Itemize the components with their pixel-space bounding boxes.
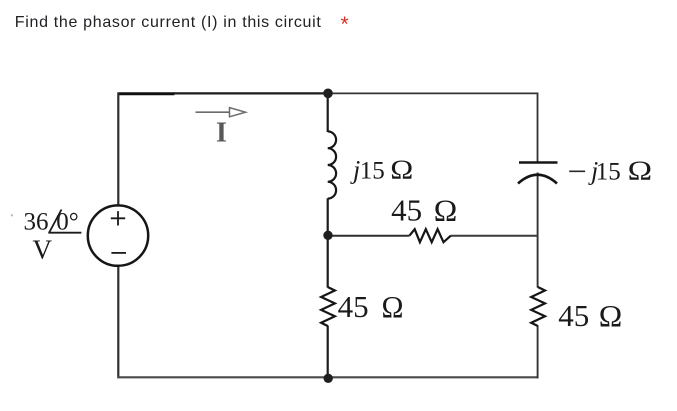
svg-text:*: * <box>341 13 349 36</box>
svg-text:Ω: Ω <box>382 289 404 324</box>
resistor R2 45 ohm middle vertical: zigzag <box>321 287 335 326</box>
svg-text:V: V <box>33 235 53 265</box>
svg-text:36: 36 <box>24 209 49 236</box>
stray speck <box>11 214 13 216</box>
svg-text:I: I <box>216 118 227 149</box>
svg-text:Ω: Ω <box>599 298 623 333</box>
label: angle underline <box>48 232 81 234</box>
wire: middle vertical above inductor <box>327 93 329 133</box>
wire: top horizontal middle part <box>174 92 329 94</box>
wire: middle vertical node to resistor <box>327 235 329 288</box>
wire: bottom horizontal <box>118 376 539 378</box>
label: angle slash <box>49 210 61 233</box>
resistor R1 45 ohm horizontal: zigzag <box>410 229 451 242</box>
wire: right vertical below resistor <box>537 326 539 379</box>
inductor L1 j15: coil <box>328 131 336 198</box>
node C: bottom junction dot <box>324 374 333 383</box>
voltage source V1: circle <box>88 205 148 265</box>
resistor R3 45 ohm right vertical: zigzag <box>531 287 545 326</box>
svg-text:15: 15 <box>360 158 385 185</box>
wire: middle vertical inductor to middle node <box>327 198 329 236</box>
svg-text:45: 45 <box>558 298 589 333</box>
node B: middle junction dot <box>323 231 332 240</box>
svg-text:Find the phasor current (I) in: Find the phasor current (I) in this circ… <box>15 14 322 31</box>
voltage source V1: plus sign <box>111 211 125 225</box>
wire: top horizontal right part <box>328 92 538 94</box>
svg-text:45: 45 <box>338 289 369 324</box>
wire: middle horizontal left of resistor <box>328 235 410 237</box>
node A: top junction dot <box>323 89 333 99</box>
wire: right vertical above capacitor <box>537 93 539 162</box>
svg-text:Ω: Ω <box>434 193 458 228</box>
wire: left vertical upper (source top lead) <box>117 93 119 206</box>
svg-text:45: 45 <box>391 193 422 228</box>
capacitor C1: top plate <box>519 161 558 164</box>
voltage source V1: minus sign <box>111 252 126 254</box>
wire: middle vertical below resistor <box>327 326 329 379</box>
svg-text:0°: 0° <box>56 209 79 236</box>
capacitor C1: curved bottom plate <box>518 175 557 184</box>
current arrow I: open head <box>230 108 246 117</box>
wire: middle horizontal right of resistor <box>451 235 538 237</box>
label: minus j15 ohms, minus <box>569 170 585 172</box>
wire: right vertical capacitor to resistor <box>537 173 539 288</box>
current arrow I: shaft <box>196 111 239 113</box>
wire: top horizontal thick left part <box>118 92 175 95</box>
wire: left vertical lower (source bottom lead) <box>117 266 119 379</box>
svg-text:j: j <box>350 156 360 185</box>
svg-text:15: 15 <box>596 158 621 185</box>
svg-text:Ω: Ω <box>390 155 413 185</box>
svg-text:Ω: Ω <box>628 155 653 185</box>
